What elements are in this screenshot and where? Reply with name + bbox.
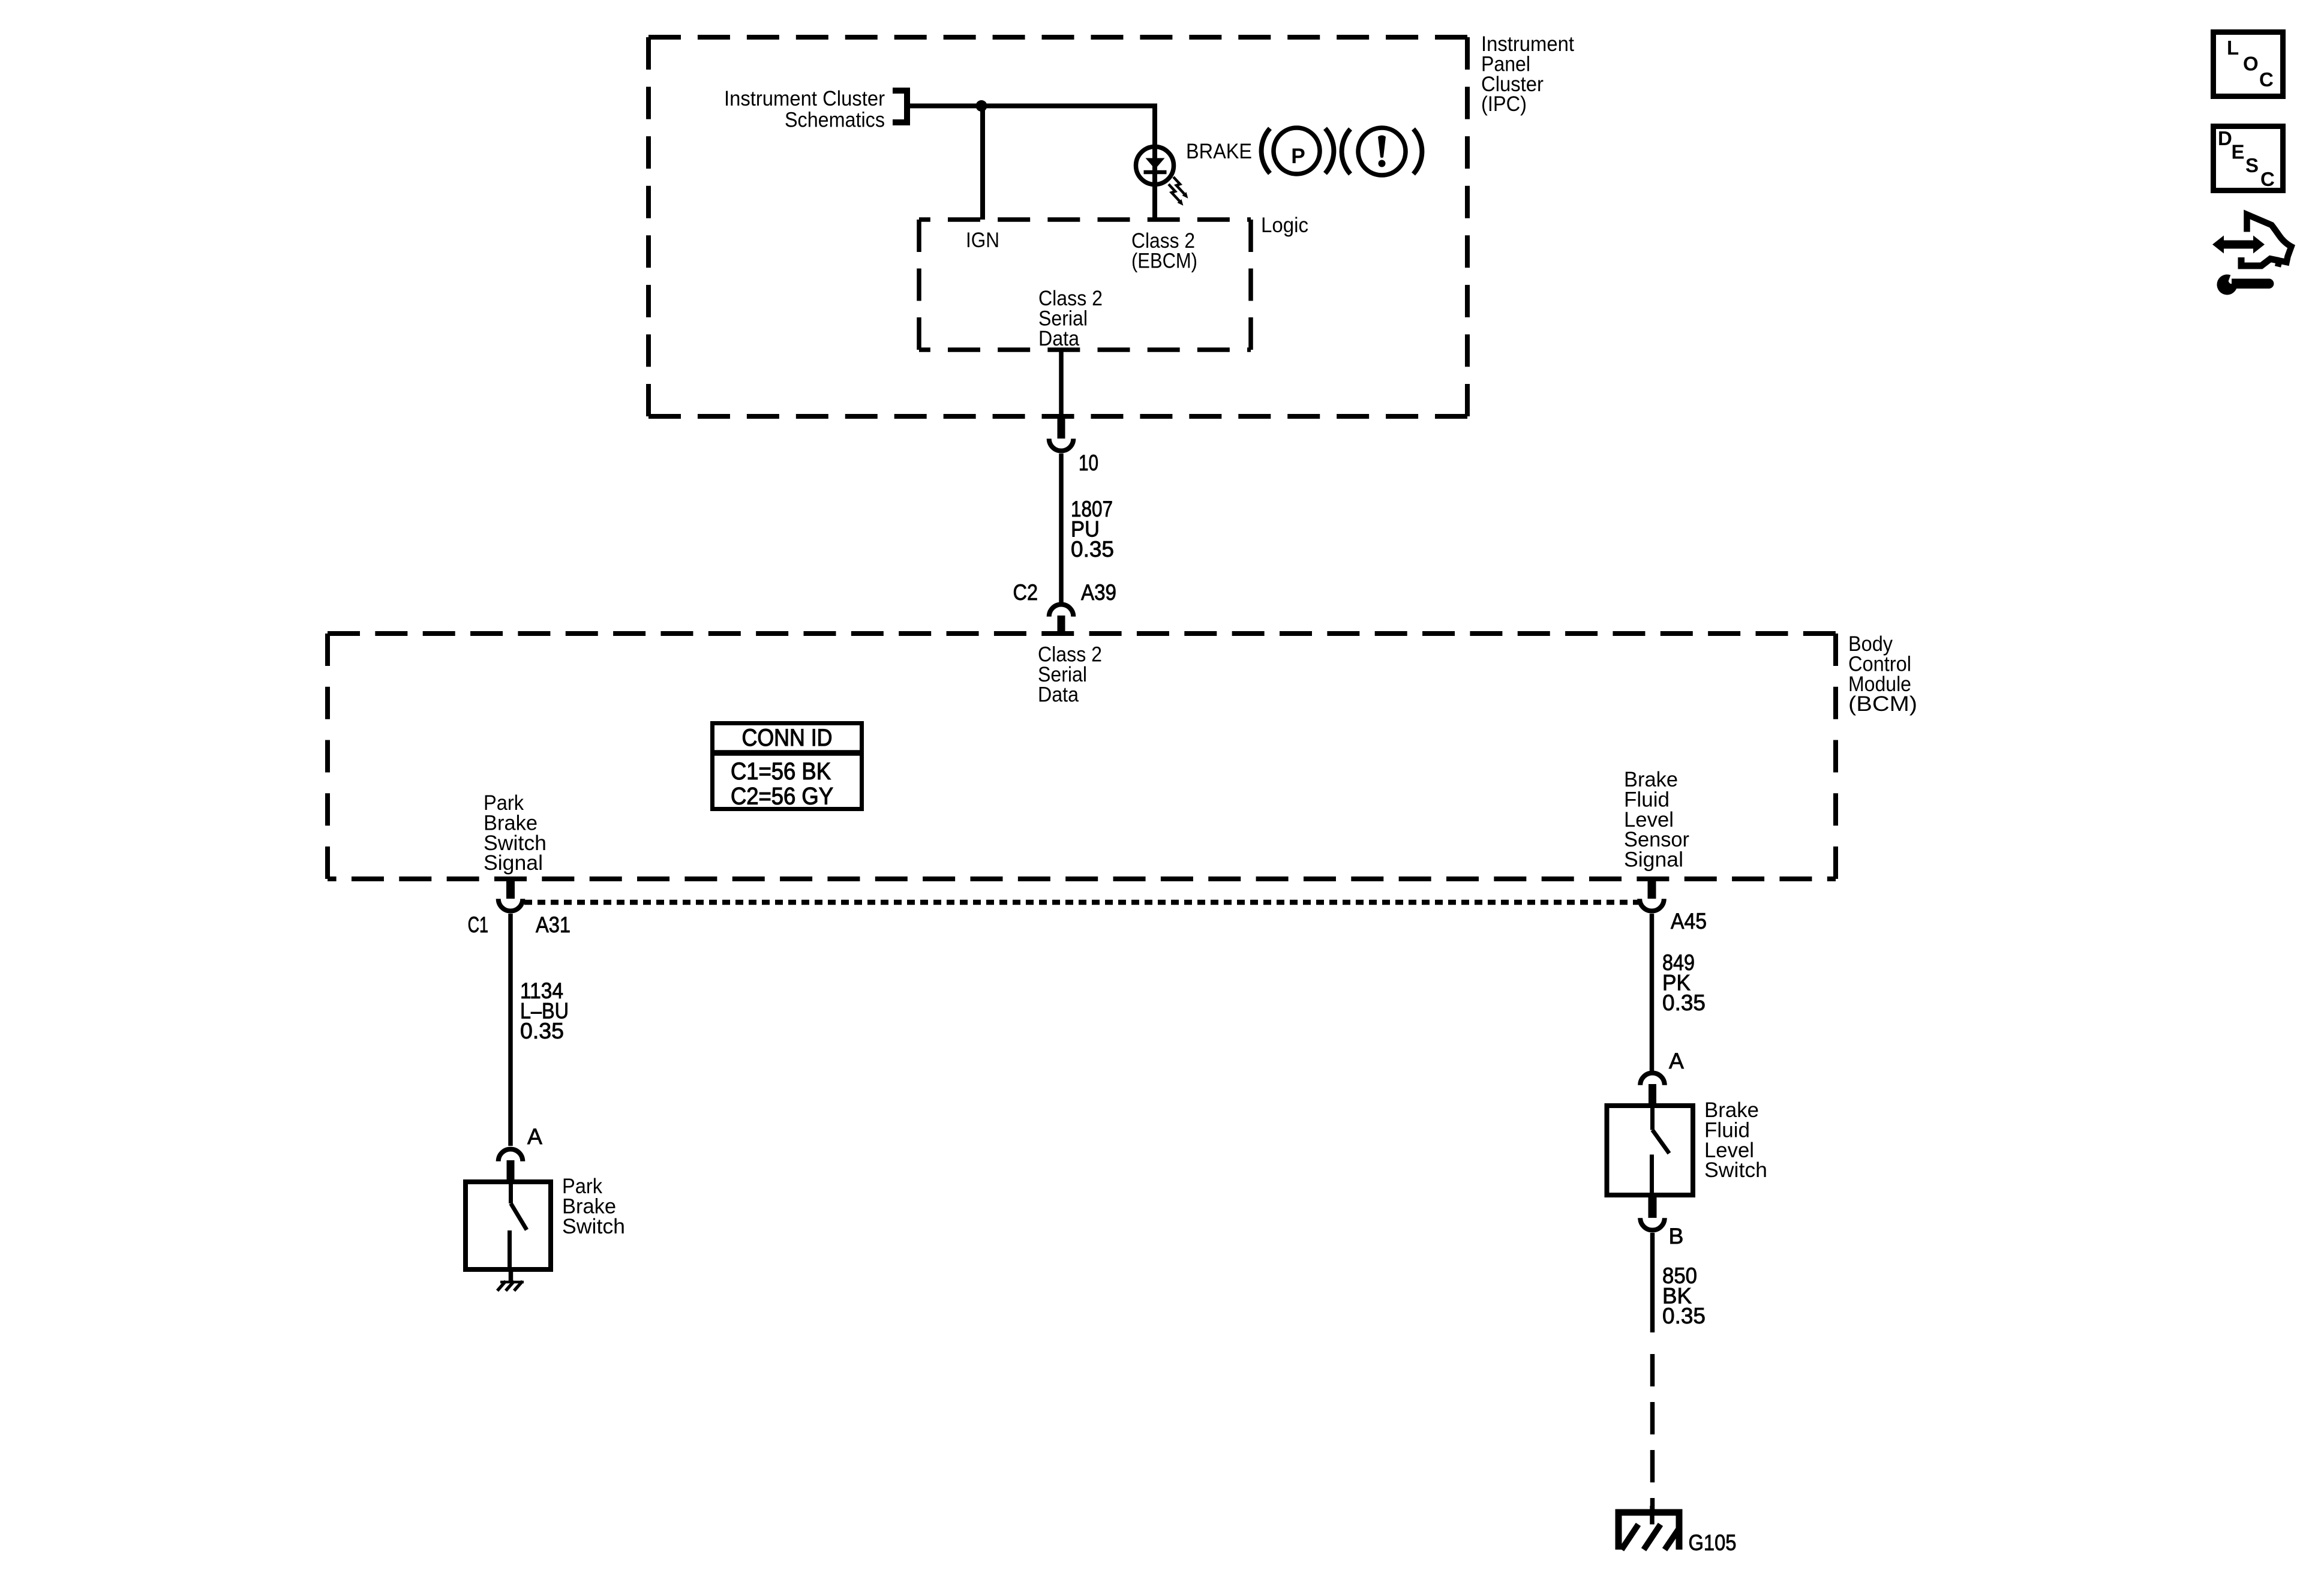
- svg-text:C2=56 GY: C2=56 GY: [731, 784, 833, 810]
- CONN ID table: [710, 724, 864, 810]
- connector A45 cup: [1640, 899, 1664, 911]
- connector C2/A39 cup: [1049, 605, 1074, 617]
- svg-text:Data: Data: [1038, 683, 1079, 707]
- svg-text:Signal: Signal: [1624, 848, 1683, 872]
- junction dot: [976, 100, 987, 112]
- chassis ground (park brake switch): [497, 1281, 524, 1291]
- LED light arrows: [1169, 177, 1188, 206]
- label: Park Brake Switch: [562, 1175, 625, 1238]
- node label: Instrument Cluster Schematics: [724, 87, 885, 132]
- svg-text:C1=56 BK: C1=56 BK: [731, 758, 831, 785]
- icon: LOC: [2214, 32, 2283, 97]
- connector A (brake fluid level switch) cup: [1640, 1073, 1665, 1085]
- label: Brake Fluid Level Switch: [1704, 1098, 1767, 1182]
- wire: 849 PK 0.35: [1650, 914, 1655, 1071]
- switch symbol (brake fluid level): [1652, 1103, 1670, 1197]
- connector pin 10 stub: [1058, 418, 1065, 439]
- svg-text:O: O: [2243, 53, 2259, 75]
- icon: vehicle data communication (arrow, vehicle, wrench): [2212, 215, 2292, 295]
- svg-text:Switch: Switch: [1704, 1158, 1767, 1182]
- label: Instrument Panel Cluster (IPC): [1481, 32, 1574, 116]
- svg-text:0.35: 0.35: [1662, 990, 1706, 1015]
- LED indicator (BRAKE lamp): [1136, 147, 1174, 185]
- connector A pin stub: [507, 1160, 515, 1179]
- svg-text:0.35: 0.35: [520, 1018, 564, 1043]
- svg-text:A: A: [527, 1124, 542, 1149]
- svg-text:A39: A39: [1081, 580, 1116, 605]
- svg-text:10: 10: [1079, 450, 1098, 475]
- pin label: Park Brake Switch Signal: [484, 791, 547, 875]
- svg-text:Schematics: Schematics: [785, 109, 885, 132]
- svg-text:G105: G105: [1689, 1530, 1737, 1555]
- svg-text:C: C: [2260, 168, 2275, 190]
- svg-text:D: D: [2218, 127, 2232, 149]
- module box: Body Control Module (dashed): [328, 634, 1836, 879]
- svg-text:C2: C2: [1013, 580, 1038, 605]
- svg-text:0.35: 0.35: [1662, 1303, 1706, 1328]
- wire: 1134 L-BU 0.35: [508, 914, 513, 1146]
- svg-text:A31: A31: [536, 912, 571, 937]
- wire label: 1134 L-BU 0.35: [520, 978, 569, 1043]
- telltale: brake warning ((!)): [1342, 128, 1422, 175]
- svg-text:(EBCM): (EBCM): [1131, 249, 1197, 272]
- svg-text:0.35: 0.35: [1071, 536, 1114, 562]
- module box: Instrument Panel Cluster (dashed): [648, 37, 1467, 416]
- net label: Class 2 Serial Data (logic box): [1038, 287, 1103, 350]
- connector C1/A31 cup: [499, 899, 523, 911]
- ground G105: [1616, 1506, 1683, 1550]
- svg-text:C: C: [2259, 68, 2274, 91]
- wire label: 1807 PU 0.35: [1071, 496, 1114, 562]
- pin label: Class 2 (EBCM): [1131, 229, 1197, 272]
- wire label: 849 PK 0.35: [1662, 950, 1706, 1015]
- connector A (park brake switch) cup: [499, 1149, 523, 1161]
- dotted jumper line C1/A31 to A45: [524, 900, 1638, 905]
- wire: 850 BK 0.35 (solid): [1650, 1233, 1655, 1332]
- switch symbol (park brake): [510, 1179, 527, 1272]
- svg-text:B: B: [1669, 1223, 1684, 1248]
- component box: Park Brake Switch: [466, 1182, 551, 1269]
- connector B pin stub: [1649, 1197, 1657, 1218]
- ground wire below park brake switch: [509, 1272, 514, 1283]
- svg-text:Logic: Logic: [1261, 214, 1308, 237]
- connector C1/A31 pin stub: [506, 879, 515, 899]
- wire: 1807 PU 0.35: [1059, 454, 1064, 602]
- svg-text:E: E: [2232, 141, 2245, 163]
- svg-text:A: A: [1669, 1048, 1684, 1073]
- wire label: 850 BK 0.35: [1662, 1263, 1706, 1328]
- connector B cup: [1640, 1218, 1665, 1230]
- svg-text:(BCM): (BCM): [1848, 692, 1917, 716]
- wire: IGN drop to logic box: [980, 106, 985, 220]
- svg-text:BRAKE: BRAKE: [1186, 140, 1252, 163]
- connector A45 pin stub: [1648, 879, 1656, 899]
- svg-text:Data: Data: [1038, 327, 1079, 350]
- svg-text:IGN: IGN: [966, 229, 999, 252]
- wire: Class 2 serial data to IPC border: [1059, 350, 1064, 418]
- net label: Class 2 Serial Data (BCM): [1038, 643, 1102, 707]
- wire: IGN feed bus: [907, 104, 1155, 109]
- connector C2/A39 pin stub: [1058, 616, 1065, 634]
- svg-text:P: P: [1291, 145, 1305, 168]
- logic box (dashed): [919, 220, 1251, 350]
- label: Body Control Module (BCM): [1848, 632, 1917, 716]
- icon: DESC: [2214, 127, 2283, 191]
- svg-text:CONN ID: CONN ID: [742, 725, 833, 751]
- svg-text:C1: C1: [468, 912, 488, 937]
- svg-text:Switch: Switch: [562, 1215, 625, 1238]
- svg-text:Signal: Signal: [484, 851, 543, 875]
- svg-text:A45: A45: [1671, 908, 1707, 933]
- wire: drop to BRAKE LED and Class 2 (EBCM): [1152, 104, 1157, 220]
- svg-text:S: S: [2245, 154, 2259, 176]
- svg-text:L: L: [2227, 37, 2239, 59]
- svg-text:Instrument Cluster: Instrument Cluster: [724, 87, 885, 110]
- telltale: park brake ((P)): [1262, 128, 1334, 174]
- bracket for Instrument Cluster Schematics: [893, 91, 907, 122]
- pin label: Brake Fluid Level Sensor Signal: [1624, 768, 1689, 872]
- component box: Brake Fluid Level Switch: [1607, 1106, 1694, 1195]
- svg-text:(IPC): (IPC): [1481, 92, 1527, 116]
- connector 10 cup: [1049, 439, 1074, 451]
- connector A pin stub (bfls): [1649, 1084, 1656, 1103]
- wire: 850 BK 0.35 (dashed): [1650, 1354, 1655, 1512]
